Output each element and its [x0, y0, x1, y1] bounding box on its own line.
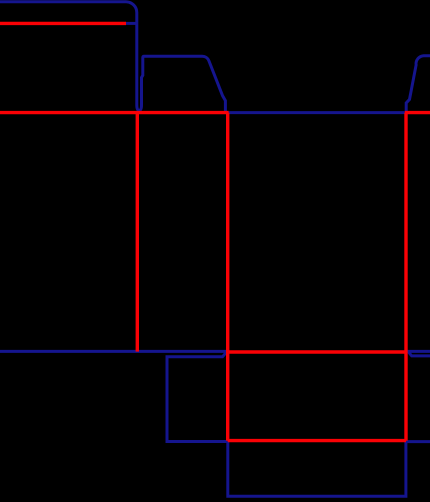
- fold: bottom tuck flap rectangle: [228, 442, 406, 497]
- fold: left bottom dust flap with hook relief: [167, 352, 228, 441]
- cut: centre-right panel vertical: [404, 113, 407, 441]
- fold: right dust flap edge (cropped at canvas edge): [406, 56, 430, 113]
- cut: bottom panel bottom edge: [228, 439, 406, 442]
- cut: bottom panel top edge: [228, 350, 406, 353]
- fold: main top crease of front panel: [228, 111, 405, 114]
- cut: left panel divider vertical: [136, 113, 139, 352]
- cut: lid inner cut line: [0, 22, 126, 25]
- fold: blue stub right of bottom panel: [406, 440, 430, 443]
- fold: right bottom crease with hook relief: [408, 351, 430, 356]
- fold: bottom crease left of panel: [0, 350, 227, 353]
- cut: top edge right section: [405, 111, 430, 114]
- cut: top edge left section: [0, 111, 229, 114]
- cut: centre-left panel vertical: [226, 113, 229, 441]
- fold: short blue connector at lid crease: [125, 22, 137, 25]
- fold: top lid flap outline + slot + dust flap 2 edge (blue): [0, 2, 225, 113]
